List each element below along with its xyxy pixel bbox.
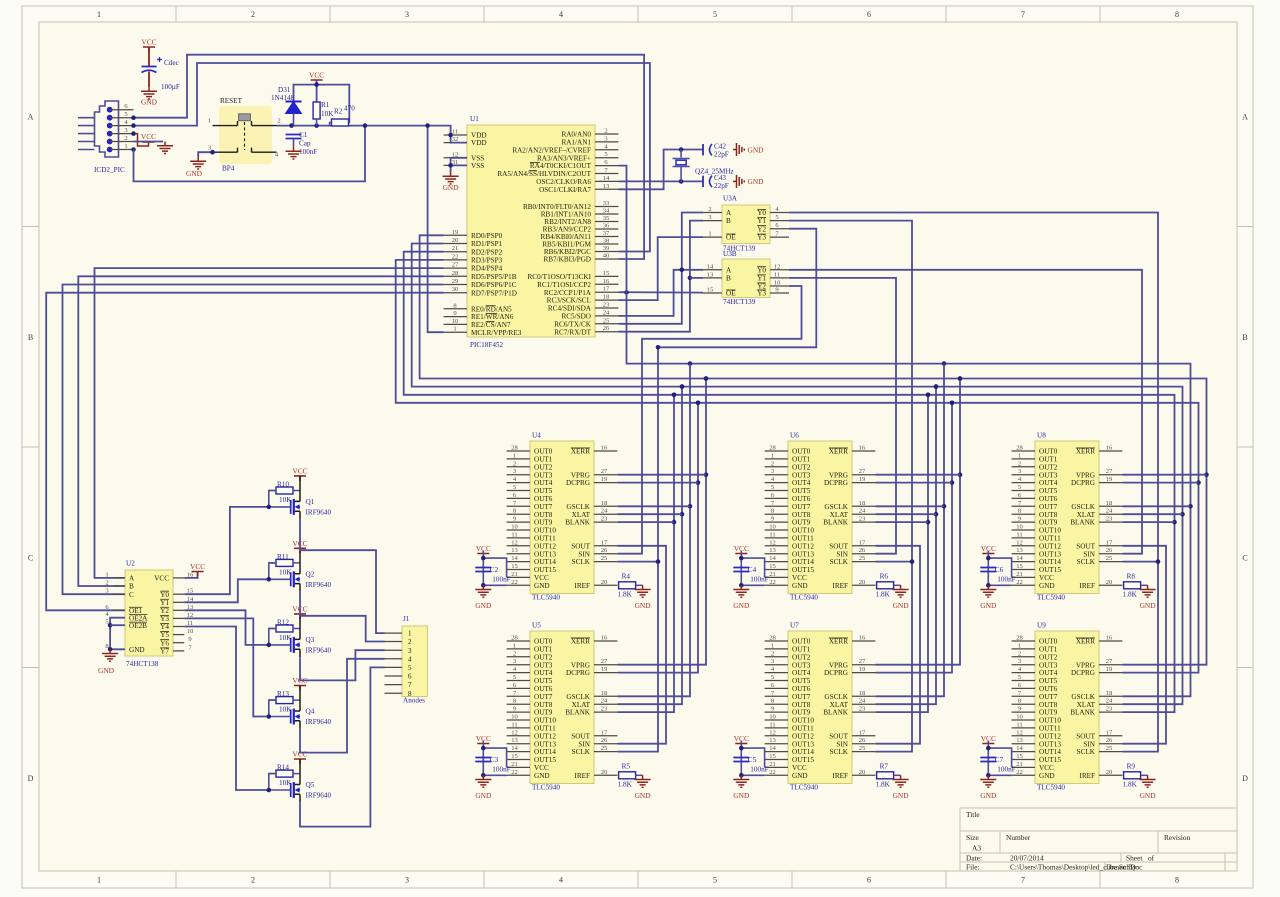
svg-text:OUT5: OUT5 [534,677,553,685]
svg-text:5: 5 [713,10,717,19]
svg-text:2: 2 [105,580,108,587]
svg-text:OUT1: OUT1 [792,646,811,654]
svg-text:20: 20 [601,579,608,586]
svg-text:OUT0: OUT0 [534,448,553,456]
svg-text:SOUT: SOUT [829,542,848,550]
svg-text:Q1: Q1 [306,498,315,506]
power VCC (top-left) [141,38,156,53]
svg-text:U9: U9 [1037,622,1046,630]
svg-text:16: 16 [601,635,608,642]
svg-text:10: 10 [769,524,776,531]
svg-text:14: 14 [511,555,518,562]
power VCC (C4) [734,544,749,559]
svg-text:7: 7 [1021,10,1025,19]
svg-text:DCPRG: DCPRG [566,479,590,487]
svg-text:OUT5: OUT5 [1039,487,1058,495]
svg-text:18: 18 [1106,500,1113,507]
svg-text:2: 2 [771,650,774,657]
svg-text:OUT8: OUT8 [792,701,811,709]
svg-text:13: 13 [1016,737,1023,744]
svg-text:1: 1 [513,642,516,649]
ground (BP4) [186,157,206,178]
resistor R13 [276,697,293,704]
wire SOUT chain col3 [1122,546,1166,744]
resistor R11 [276,559,293,566]
wire SOUT chain col2 [875,546,920,744]
svg-text:15: 15 [603,270,610,277]
svg-text:VDD: VDD [471,139,487,147]
resistor R12 [276,625,293,632]
svg-text:28: 28 [452,270,459,277]
IC U9 TLC5940 body [1035,631,1099,784]
wire VSS to GND [450,165,452,172]
svg-text:SOUT: SOUT [1076,732,1095,740]
wire VCC to pin21 [988,551,1011,585]
wire U3A.Y0 to col3 SCLK [789,213,1158,752]
resistor R10 [276,487,293,494]
svg-text:Y6: Y6 [160,639,169,647]
svg-text:OUT13: OUT13 [1039,740,1061,748]
wire DCPRG tap col2 top [875,482,952,484]
ground (U2) [98,649,118,675]
wire U3A.Y2 to col1 SCLK [617,229,816,752]
svg-text:OUT6: OUT6 [534,685,553,693]
svg-text:R2: R2 [334,108,343,116]
svg-text:VCC: VCC [534,764,549,772]
svg-text:100nF: 100nF [750,576,768,584]
wire U3B.A link [681,269,683,271]
svg-text:34: 34 [603,208,610,215]
svg-text:36: 36 [603,223,610,230]
connector J1 body [402,626,428,697]
svg-text:RD0/PSP0: RD0/PSP0 [471,232,503,240]
svg-text:U1: U1 [470,115,479,123]
svg-text:VCC: VCC [309,71,324,80]
power VCC (Q3) [292,604,307,619]
svg-text:C6: C6 [995,566,1004,574]
U2 left pins [105,571,148,654]
wire Q1 gate [269,491,291,507]
svg-text:28: 28 [1016,635,1023,642]
transistor Q4 IRF9640 [291,686,332,729]
svg-text:VPRG: VPRG [1076,471,1095,479]
svg-text:SCLK: SCLK [830,558,849,566]
svg-text:RD5/PSP5/P1B: RD5/PSP5/P1B [471,273,517,281]
svg-text:C: C [28,553,33,562]
svg-text:BLANK: BLANK [1070,519,1096,527]
transistor Q3 IRF9640 [291,614,332,657]
svg-text:22pF: 22pF [714,182,729,190]
svg-text:25: 25 [603,317,610,324]
svg-text:GND: GND [443,183,460,192]
svg-text:SIN: SIN [836,740,848,748]
svg-text:IREF: IREF [574,772,590,780]
svg-text:GND: GND [186,169,203,178]
wire VCC to pin21 [988,741,1011,775]
svg-text:OUT6: OUT6 [792,685,811,693]
svg-text:TLC5940: TLC5940 [790,784,818,792]
svg-text:VPRG: VPRG [571,471,590,479]
svg-text:13: 13 [769,547,776,554]
svg-text:Q4: Q4 [306,708,315,716]
wire RC7 to U3A.B/U3B.B [618,221,703,332]
svg-text:24: 24 [1106,698,1113,705]
svg-text:2: 2 [1018,460,1021,467]
svg-text:XLAT: XLAT [572,701,591,709]
svg-text:Y1: Y1 [757,217,766,225]
resistor R5 [619,772,636,779]
svg-text:35: 35 [603,215,610,222]
svg-text:TLC5940: TLC5940 [1037,594,1065,602]
pin 3 ICD2_PIC [110,133,134,135]
svg-text:R7: R7 [880,763,889,771]
svg-text:A: A [1242,112,1248,121]
svg-text:OUT11: OUT11 [792,725,814,733]
svg-text:16: 16 [859,445,866,452]
svg-text:A: A [129,575,135,583]
svg-text:OUT6: OUT6 [534,495,553,503]
wire Q4 gate [269,700,291,716]
svg-text:Cap: Cap [299,140,311,148]
U8 right pins [1070,445,1122,590]
svg-text:25: 25 [859,555,866,562]
svg-text:VPRG: VPRG [1076,661,1095,669]
svg-text:20/07/2014: 20/07/2014 [1010,854,1044,863]
power VCC (Q2) [292,539,307,554]
svg-text:OUT9: OUT9 [1039,519,1058,527]
svg-text:SCLK: SCLK [1077,558,1096,566]
svg-text:GND: GND [129,646,145,654]
svg-text:Y0: Y0 [757,209,766,217]
wire Y0 to Q1 gate [184,507,268,594]
resistor R7 [877,772,894,779]
svg-text:1.8K: 1.8K [618,591,633,599]
svg-text:TLC5940: TLC5940 [532,594,560,602]
svg-text:OUT14: OUT14 [1039,748,1061,756]
svg-text:100nF: 100nF [997,766,1015,774]
svg-text:GND: GND [792,582,808,590]
svg-text:2: 2 [1018,650,1021,657]
power VCC (Q1) [292,466,307,481]
svg-text:OSC1/CLKI/RA7: OSC1/CLKI/RA7 [539,186,591,194]
svg-text:14: 14 [1016,745,1023,752]
svg-text:13: 13 [511,737,518,744]
svg-text:19: 19 [601,476,608,483]
svg-text:RE2/CS/AN7: RE2/CS/AN7 [471,321,511,329]
svg-text:GND: GND [534,582,550,590]
svg-text:25: 25 [601,555,608,562]
svg-text:GSCLK: GSCLK [1071,693,1095,701]
svg-text:XLAT: XLAT [1077,511,1096,519]
wire RD7 to U2.OE1 [46,293,443,611]
svg-text:Revision: Revision [1164,833,1191,842]
wire DCPRG tap U8 [1122,482,1198,484]
svg-text:20: 20 [859,769,866,776]
svg-text:RA3/AN3/VREF+: RA3/AN3/VREF+ [537,154,591,162]
svg-text:1N4148: 1N4148 [271,94,295,102]
svg-text:OUT15: OUT15 [534,566,556,574]
svg-text:DCPRG: DCPRG [824,669,848,677]
svg-text:23: 23 [859,516,866,523]
svg-text:IREF: IREF [832,772,848,780]
svg-text:Sheet of: Sheet of [1126,854,1155,863]
svg-text:R5: R5 [622,763,631,771]
svg-text:DCPRG: DCPRG [824,479,848,487]
svg-text:22: 22 [769,769,776,776]
svg-text:VCC: VCC [292,466,307,475]
svg-text:DCPRG: DCPRG [1071,479,1095,487]
svg-text:7: 7 [408,681,412,689]
svg-text:D: D [1242,774,1248,783]
wire GSCLK tap U8 [1122,505,1190,507]
svg-text:28: 28 [511,635,518,642]
svg-text:11: 11 [769,721,775,728]
svg-text:OUT13: OUT13 [792,740,814,748]
wire R14 leads [269,773,300,775]
wire MCLR row [277,126,451,135]
wire VDD jumper [451,135,467,143]
svg-text:18: 18 [601,500,608,507]
wire DCPRG net (RD3) [396,260,1199,673]
svg-text:40: 40 [603,253,610,260]
wire VCC to pin21 [483,551,506,585]
svg-text:3: 3 [405,10,409,19]
wire DCPRG tap col1 top [617,482,698,484]
U7 left pins [765,635,815,780]
wire ICD2 pin2 to GND [134,141,164,143]
svg-text:VCC: VCC [154,575,169,583]
svg-text:SOUT: SOUT [829,732,848,740]
svg-text:RC2/CCP1/P1A: RC2/CCP1/P1A [544,289,592,297]
pin 2 ICD2_PIC [110,141,134,143]
wire R13 leads [269,699,300,701]
svg-text:SOUT: SOUT [571,732,590,740]
svg-text:28: 28 [769,635,776,642]
pin 5 ICD2_PIC [110,117,134,119]
svg-text:OUT3: OUT3 [1039,471,1058,479]
svg-text:11: 11 [511,531,517,538]
wire RD5 to U2.B [78,276,443,586]
svg-text:OUT15: OUT15 [1039,756,1061,764]
svg-text:25: 25 [1106,745,1113,752]
svg-text:IRF9640: IRF9640 [306,508,332,516]
svg-text:15: 15 [769,563,776,570]
svg-text:470: 470 [344,105,355,113]
U6 left pins [765,445,815,590]
svg-text:21: 21 [1016,571,1023,578]
svg-text:10: 10 [774,280,781,287]
svg-text:OUT0: OUT0 [792,638,811,646]
ground (U1 VSS) [443,172,460,192]
svg-text:27: 27 [859,468,866,475]
svg-text:24: 24 [859,698,866,705]
svg-text:GND: GND [893,791,910,800]
U4 left pins [507,445,557,590]
svg-text:23: 23 [859,706,866,713]
svg-text:OUT3: OUT3 [534,661,553,669]
svg-text:14: 14 [769,555,776,562]
svg-text:OUT14: OUT14 [792,748,814,756]
svg-text:18: 18 [859,500,866,507]
svg-text:GND: GND [635,601,652,610]
wire Cdec to GND [148,72,150,88]
wire GSCLK drop col2 [875,364,944,697]
svg-text:RC3/SCK/SCL: RC3/SCK/SCL [547,297,591,305]
svg-text:RC0/T1OSO/T13CKI: RC0/T1OSO/T13CKI [528,273,592,281]
svg-text:OUT2: OUT2 [792,463,811,471]
svg-text:22: 22 [511,769,518,776]
svg-text:20: 20 [452,237,459,244]
svg-text:RC6/TX/CK: RC6/TX/CK [554,320,592,328]
U4 right pins [565,445,617,590]
wire U3B.B from RC7 vertical [690,277,703,279]
wire XLAT drop col2 [875,387,936,705]
wire U3B.Y1 to U6 SIN [789,278,896,554]
wire Y4 to Q5 gate [184,627,268,791]
svg-text:XERR: XERR [1076,448,1095,456]
svg-text:18: 18 [603,294,610,301]
svg-text:OUT3: OUT3 [792,661,811,669]
IC U3A 74HCT139 [722,205,770,244]
ground (R6) [893,585,910,610]
IC U1 PIC18F452 body [467,125,595,337]
wire BP4 pin3 to GND [198,152,212,157]
svg-text:26: 26 [601,737,608,744]
svg-text:OUT7: OUT7 [792,503,811,511]
wire VCC to pin21 [741,551,764,585]
svg-text:OUT9: OUT9 [792,709,811,717]
svg-text:OUT12: OUT12 [1039,732,1061,740]
svg-text:R12: R12 [277,619,289,627]
svg-text:1: 1 [513,452,516,459]
svg-text:100nF: 100nF [492,766,510,774]
svg-text:C4: C4 [748,566,757,574]
svg-text:D: D [28,774,34,783]
svg-text:J1: J1 [403,615,410,623]
svg-text:GSCLK: GSCLK [824,693,848,701]
wire ICD2 pin4 to RB6/PGC [134,63,650,252]
wire IREF [636,584,643,586]
svg-text:GND: GND [475,791,492,800]
svg-text:OUT15: OUT15 [534,756,556,764]
wire XLAT tap col2 top [875,513,936,515]
svg-text:2: 2 [277,118,280,125]
svg-text:U8: U8 [1037,432,1046,440]
svg-text:R1: R1 [321,101,330,109]
svg-text:15: 15 [1016,563,1023,570]
svg-text:R6: R6 [880,573,889,581]
wire SCLK tap top col1 [617,561,658,563]
svg-text:RA5/AN4/SS/HLVDIN/C2OUT: RA5/AN4/SS/HLVDIN/C2OUT [497,170,591,178]
wire VPRG drop col1 [617,379,706,665]
svg-text:Y3: Y3 [757,234,766,242]
svg-text:27: 27 [1106,658,1113,665]
crystal QZ4 25MHz [673,150,734,182]
svg-text:OUT8: OUT8 [1039,701,1058,709]
svg-text:OUT15: OUT15 [792,566,814,574]
svg-text:2: 2 [771,460,774,467]
svg-text:OUT13: OUT13 [1039,550,1061,558]
svg-text:OUT1: OUT1 [534,646,553,654]
wire GSCLK drop col1 [617,364,690,697]
svg-text:XLAT: XLAT [830,511,849,519]
svg-text:Y1: Y1 [757,275,766,283]
svg-text:TLC5940: TLC5940 [1037,784,1065,792]
svg-text:GND: GND [733,791,750,800]
wire IREF [894,774,901,776]
svg-text:6: 6 [867,876,871,885]
svg-text:1: 1 [708,231,711,238]
svg-text:Q5: Q5 [306,781,315,789]
svg-text:OUT7: OUT7 [1039,503,1058,511]
svg-text:IRF9640: IRF9640 [306,581,332,589]
svg-text:OUT15: OUT15 [1039,566,1061,574]
svg-text:16: 16 [859,635,866,642]
svg-text:VCC: VCC [792,764,807,772]
wire U3B.Y2 to U4 SIN [617,286,801,554]
wire Q3 gate [269,629,291,645]
svg-text:1: 1 [1018,452,1021,459]
wire RC6 to U3A.A/U3B.A [618,213,703,324]
wire XLAT drop col1 [617,387,682,705]
svg-text:OUT14: OUT14 [792,558,814,566]
svg-text:GND: GND [534,772,550,780]
svg-text:20: 20 [1106,579,1113,586]
svg-text:26: 26 [1106,547,1113,554]
svg-text:24: 24 [1106,508,1113,515]
svg-text:Anodes: Anodes [403,697,425,705]
svg-text:22: 22 [511,579,518,586]
svg-text:7: 7 [1021,876,1025,885]
svg-text:C43: C43 [714,174,726,182]
svg-text:OUT14: OUT14 [534,748,556,756]
svg-text:12: 12 [511,539,518,546]
wire SOUT chain col1 [617,546,666,744]
svg-text:R4: R4 [622,573,631,581]
svg-text:6: 6 [867,10,871,19]
svg-text:17: 17 [859,729,866,736]
svg-text:SCLK: SCLK [572,748,591,756]
svg-text:2: 2 [513,650,516,657]
svg-text:25: 25 [1106,555,1113,562]
svg-text:4: 4 [408,655,412,663]
svg-text:17: 17 [601,729,608,736]
wire BLANK net (RD2) [404,252,1175,712]
svg-text:8: 8 [1175,10,1179,19]
svg-text:R14: R14 [277,764,289,772]
svg-text:RD6/PSP6/P1C: RD6/PSP6/P1C [471,281,517,289]
svg-text:28: 28 [1016,445,1023,452]
wire R11 leads [269,562,300,564]
svg-text:File:: File: [966,863,980,872]
svg-text:16: 16 [1106,635,1113,642]
svg-text:OUT10: OUT10 [1039,717,1061,725]
svg-text:26: 26 [601,547,608,554]
svg-text:27: 27 [601,468,608,475]
svg-text:24: 24 [601,508,608,515]
svg-text:17: 17 [1106,729,1113,736]
wire Y2 to Q3 gate [184,610,268,645]
svg-text:OUT1: OUT1 [792,456,811,464]
svg-text:R8: R8 [1127,573,1136,581]
svg-text:OUT6: OUT6 [1039,495,1058,503]
svg-text:GND: GND [792,772,808,780]
svg-text:14: 14 [1016,555,1023,562]
transistor Q1 IRF9640 [291,476,332,519]
svg-text:OUT14: OUT14 [1039,558,1061,566]
svg-text:OUT13: OUT13 [534,740,556,748]
U1 left pins [444,129,522,337]
